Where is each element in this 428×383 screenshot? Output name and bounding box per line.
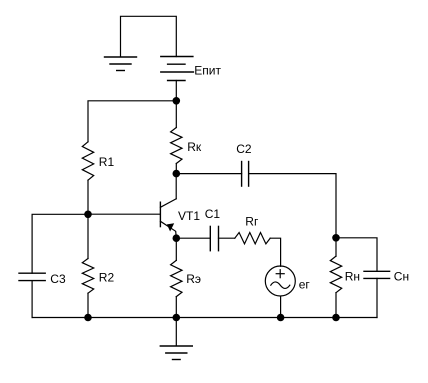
svg-text:Сн: Сн xyxy=(394,269,409,283)
source ег xyxy=(265,266,295,296)
wire C2 to node D xyxy=(249,174,336,238)
svg-text:Rн: Rн xyxy=(345,269,360,283)
wire R2 to bottom rail xyxy=(87,293,89,317)
wire Сн to rail xyxy=(376,278,378,317)
svg-text:R2: R2 xyxy=(99,271,115,285)
node F junction (source / rail) xyxy=(277,314,285,322)
transistor VT1 xyxy=(160,199,176,238)
wire R1 to node B xyxy=(87,180,89,214)
node E junction (emitter) xyxy=(173,234,181,242)
node I junction (R2 / rail) xyxy=(84,314,92,322)
svg-text:C3: C3 xyxy=(50,272,66,286)
resistor R1 xyxy=(82,142,93,180)
wire base to node B xyxy=(88,213,160,215)
resistor Rн xyxy=(330,256,341,293)
node A junction xyxy=(173,97,181,105)
svg-text:C2: C2 xyxy=(236,142,252,156)
resistor Rг xyxy=(235,233,270,244)
node G junction (Rэ / rail / ground) xyxy=(173,314,181,322)
wire top rail (ground to battery) xyxy=(121,16,177,56)
ground (bottom) xyxy=(160,346,192,360)
wire C3 to bottom rail xyxy=(31,281,33,318)
svg-text:R1: R1 xyxy=(99,155,115,169)
svg-text:ег: ег xyxy=(299,278,311,292)
capacitor C2 xyxy=(242,162,249,187)
svg-text:VT1: VT1 xyxy=(178,209,200,223)
wire node D to Rн xyxy=(335,238,337,256)
capacitor C1 xyxy=(210,226,218,250)
capacitor Сн xyxy=(364,271,390,278)
svg-text:C1: C1 xyxy=(205,207,221,221)
wire node C to C2 xyxy=(176,173,241,175)
node D junction xyxy=(332,234,340,242)
wire source to rail xyxy=(280,296,282,317)
svg-text:Епит: Епит xyxy=(194,64,221,78)
wire rail to ground xyxy=(175,318,177,346)
wire Rг to source ег xyxy=(270,238,280,266)
wire Rн to rail xyxy=(335,293,337,318)
wire Rк to node C xyxy=(175,164,177,174)
wire node E to Rэ xyxy=(175,238,177,260)
resistor Rэ xyxy=(171,260,182,296)
wire Rэ to rail xyxy=(175,297,177,318)
wire battery to node A xyxy=(175,81,177,101)
svg-text:Rг: Rг xyxy=(245,214,259,228)
wire node A to R1 top xyxy=(88,101,176,142)
node C junction xyxy=(173,170,181,178)
wire collector to node C xyxy=(175,174,177,199)
wire bottom rail xyxy=(32,317,377,319)
resistor Rк xyxy=(171,128,182,164)
wire C1 to Rг xyxy=(219,237,235,239)
wire node E to C1 xyxy=(176,237,210,239)
wire node D to Сн xyxy=(336,238,377,271)
svg-text:Rэ: Rэ xyxy=(186,272,201,286)
node H junction (Rн / rail) xyxy=(332,314,340,322)
battery Епит xyxy=(161,57,194,81)
resistor R2 xyxy=(82,259,93,294)
svg-text:Rк: Rк xyxy=(187,140,202,154)
capacitor C3 xyxy=(19,273,45,280)
ground (top) xyxy=(105,57,137,71)
wire node A to Rк xyxy=(175,101,177,128)
node B junction xyxy=(84,211,92,219)
wire node B to C3 xyxy=(32,214,88,273)
wire node B to R2 xyxy=(87,214,89,258)
